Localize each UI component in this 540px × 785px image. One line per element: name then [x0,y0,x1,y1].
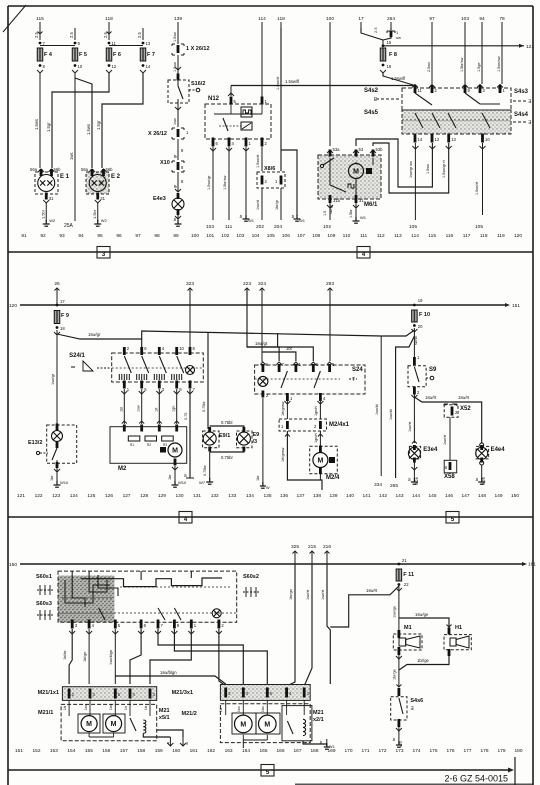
wire K67 branch to ground W1 [281,150,306,223]
svg-text:M2/4: M2/4 [326,475,340,481]
top feed tick 115 [36,16,44,28]
svg-text:M6/1: M6/1 [364,202,378,208]
relay M21 x2/1 [282,700,324,741]
svg-text:0.75bl: 0.75bl [221,420,232,425]
svg-text:1sw/gr: 1sw/gr [88,332,101,337]
svg-text:2.5ws: 2.5ws [427,62,431,72]
svg-text:1sw/rt: 1sw/rt [366,588,378,593]
svg-text:176: 176 [446,748,454,754]
svg-text:102: 102 [323,224,331,230]
svg-text:140: 140 [346,493,354,499]
ref label 223 below separator 1 [243,281,251,305]
svg-text:X58: X58 [444,474,455,480]
wire tbr branch to S24 pin1 [262,346,296,361]
svg-text:116: 116 [446,233,454,239]
wire F11 to horns 1sw/ge [393,586,399,630]
connector X52 [444,404,471,417]
wire F8 to S4 pin11 bus 1.5sw/fl [231,73,415,88]
svg-text:1sw/gr: 1sw/gr [51,373,55,385]
svg-text:31b: 31b [333,198,341,203]
svg-text:F 7: F 7 [147,52,155,58]
svg-text:105: 105 [409,224,417,230]
svg-text:149: 149 [494,493,502,499]
svg-text:a: a [167,741,169,745]
svg-text:135: 135 [263,493,271,499]
svg-text:H1: H1 [455,625,462,631]
svg-text:W: W [266,486,270,490]
svg-text:1.5gr: 1.5gr [46,122,51,132]
svg-text:53: 53 [359,147,364,152]
svg-text:19: 19 [418,298,423,303]
section key box 5 [446,512,459,524]
svg-text:162: 162 [207,748,215,754]
svg-text:131: 131 [193,493,201,499]
svg-text:265: 265 [390,483,398,489]
svg-text:F 4: F 4 [44,52,53,58]
svg-text:178: 178 [480,748,488,754]
svg-text:1bw: 1bw [261,705,265,712]
svg-text:M21: M21 [313,710,324,716]
wire M21x2/1 to ground [303,739,335,749]
svg-text:M21/3x1: M21/3x1 [172,690,193,696]
svg-text:M: M [111,721,117,728]
svg-text:110: 110 [343,233,351,239]
svg-text:E 1: E 1 [60,174,70,180]
connector M2/4x1 [279,419,350,431]
wire S60 pin3 to M21/1x1 pin2 [63,629,75,684]
svg-text:M21/1x1: M21/1x1 [38,690,59,696]
svg-text:F 9: F 9 [61,313,69,319]
svg-text:170: 170 [344,748,352,754]
svg-text:1.5br: 1.5br [92,209,97,219]
svg-text:W10: W10 [60,480,69,485]
svg-text:118: 118 [480,233,488,239]
switch S9 [408,355,437,398]
svg-text:134: 134 [246,493,254,499]
top feed tick 114 [258,16,266,28]
svg-text:0.75br: 0.75br [203,464,207,476]
svg-text:143: 143 [395,493,403,499]
fuse F8 [380,48,397,73]
section separator line 3 [8,757,515,785]
ref label 324 below separator 1 [258,281,266,305]
switch icon S60s1 [36,574,53,595]
section key box 4 [357,247,370,259]
svg-text:31: 31 [100,196,105,201]
fuse F6 [103,28,121,73]
svg-text:150: 150 [511,493,519,499]
svg-text:S60s2: S60s2 [243,574,259,580]
lamp E9/3 [237,427,260,452]
svg-text:1gn/rt: 1gn/rt [314,405,318,416]
svg-text:125: 125 [87,493,95,499]
svg-text:99: 99 [173,233,179,239]
svg-text:T: T [352,377,355,383]
wire branch to S24 pin6 [247,347,313,361]
svg-text:157: 157 [120,748,128,754]
svg-text:202: 202 [256,224,264,230]
wire N12 pin6 down to 103 [206,147,216,230]
svg-text:93: 93 [59,233,65,239]
svg-text:R3: R3 [163,443,167,447]
top feed tick 118 [105,16,113,28]
svg-text:1br: 1br [168,474,172,480]
svg-text:M21: M21 [159,708,170,714]
ref label 215 below separator 2 [308,544,316,565]
ref label 293 below separator 1 [326,281,334,305]
svg-text:94: 94 [479,16,485,22]
svg-text:173: 173 [395,748,403,754]
svg-text:x5/1: x5/1 [159,715,170,721]
svg-text:26: 26 [54,281,60,287]
lamp E4e3 [153,193,184,215]
wire E9/1-E9/3 link top 0.75bl [210,420,244,429]
svg-text:136: 136 [280,493,288,499]
wire F9 branch 1sw/gr to S24/1 pin6 [57,332,142,347]
wire S4 pin12 to M6/1 53 [356,139,435,187]
wire S4 pin10 to 105 right [475,143,486,230]
horn M1 [393,625,422,655]
svg-text:14: 14 [146,64,151,69]
svg-text:111: 111 [225,224,233,230]
svg-text:X8/6: X8/6 [264,166,275,172]
wire F5 branch down (1ws to 25A) [64,73,75,229]
wire E13/2 to ground W10 [50,468,69,487]
wire F10 branch to 265 [389,336,414,489]
svg-text:1.5br/sw: 1.5br/sw [223,175,227,190]
connector X8/6 [257,166,285,188]
wire 293 to S24 pin5 [329,288,331,361]
wire ref 215 to M21/3x1 pin1 [304,565,312,686]
svg-text:120: 120 [9,303,17,309]
wire 2.5ws to S4 block [427,28,432,84]
wire M6/1 31b to 102 [323,203,333,230]
svg-text:113: 113 [394,233,402,239]
wire S60 pin5 to M21/1x1 pin5 [109,629,118,684]
svg-text:1sw/rt: 1sw/rt [321,589,325,600]
svg-text:78: 78 [499,16,505,22]
svg-text:1br: 1br [256,475,260,481]
drawing number 2-6 GZ 54-0015 [295,774,533,785]
svg-text:98: 98 [154,233,160,239]
wire S9 to E3e4 [408,394,417,444]
svg-text:126: 126 [105,493,113,499]
wire F6 to E1 56b [46,73,109,168]
svg-text:2.5: 2.5 [373,27,378,33]
svg-text:∃: ∃ [410,706,413,712]
svg-text:1sw/rt: 1sw/rt [458,395,470,400]
wire 139 to X26/12 [173,28,178,44]
svg-text:1sw/rt: 1sw/rt [425,395,437,400]
relay label M21 x5/1 [159,708,170,721]
wire S60 pin1 jog left [150,629,194,684]
svg-text:1.5: 1.5 [323,211,327,216]
svg-text:1br/ge: 1br/ge [417,658,430,663]
svg-text:1.5sw: 1.5sw [426,164,430,174]
svg-text:sw/bl: sw/bl [414,336,418,345]
svg-text:1gn: 1gn [172,406,176,412]
wire S16/2 to X26/12 lower [173,103,181,127]
wire S4 pin14 to 105 [409,143,418,230]
top feed tick 78 [499,16,505,28]
svg-text:S4s3: S4s3 [514,89,529,95]
wires below M21/1 [143,730,188,746]
svg-text:S4s5: S4s5 [364,110,379,116]
svg-text:103: 103 [236,233,244,239]
wire S60 pin2 to M21/3x1 pin2 [216,629,226,686]
wire S24/1 to M2 1sw [137,389,145,424]
wire F11 1sw/rt route to wiper [330,586,399,627]
svg-text:W7: W7 [199,480,206,485]
svg-text:1.5ws/rt: 1.5ws/rt [475,181,479,195]
svg-text:S4s4: S4s4 [514,112,529,118]
wire X52 to E4e4 1sw/rt [450,395,484,447]
svg-text:172: 172 [378,748,386,754]
svg-text:117: 117 [463,233,471,239]
wire M2 to ground W10 [168,466,187,487]
wire 114 to N12 pin 1 [261,28,263,97]
top feed tick 103 [461,16,469,28]
connector X26/12 pin 1 [172,44,210,55]
svg-text:1.5sw/rt: 1.5sw/rt [256,154,260,168]
svg-text:1 X 26/12: 1 X 26/12 [186,46,210,52]
svg-text:53b: 53b [376,147,384,152]
wire X26/12 to S16/2 [173,55,181,81]
svg-text:166: 166 [276,748,284,754]
svg-text:142: 142 [379,493,387,499]
svg-text:25A: 25A [64,223,74,229]
ref label 26 below separator 1 [54,281,60,305]
svg-text:264: 264 [387,16,395,22]
svg-text:144: 144 [412,493,420,499]
svg-text:13: 13 [451,137,456,142]
svg-text:W3: W3 [399,741,403,747]
svg-text:M2/4x1: M2/4x1 [329,422,350,428]
svg-text:138: 138 [313,493,321,499]
svg-text:127: 127 [123,493,131,499]
wire X8/6 pin2 to 202 [256,188,264,230]
svg-text:1sw: 1sw [137,405,141,412]
svg-text:1.5ws: 1.5ws [34,119,39,130]
section key box 4b [179,512,192,524]
wire 1sw/blgn horizontal [115,670,225,684]
switch icon S60s2 [243,574,259,597]
svg-text:1.5br: 1.5br [40,209,45,219]
svg-text:165: 165 [259,748,267,754]
wire 100 to M6/1 53a [329,28,331,146]
relay N12 [205,96,271,147]
svg-text:13: 13 [146,41,151,46]
svg-text:161: 161 [190,748,198,754]
svg-text:22: 22 [404,582,409,587]
wire S24/1 to M2 1gn [172,389,180,424]
wire to X10 [173,139,184,160]
svg-text:139: 139 [329,493,337,499]
wiper switch S60 block [58,571,237,629]
fuse F5 [69,28,87,73]
svg-text:W26: W26 [415,477,419,485]
svg-text:1.5br/sw: 1.5br/sw [460,57,464,72]
svg-text:0.75: 0.75 [184,413,188,420]
svg-text:115: 115 [36,16,44,22]
headlamp E1 [30,167,70,201]
pump motor M2/4 [310,431,340,481]
svg-text:1sw/ge: 1sw/ge [415,612,429,617]
wire S60 pin6 to M21/1x1 pin4 [130,629,144,684]
wire F5 to E2 56a [75,78,92,168]
wire S4s6 to ground W3 [392,727,403,747]
main bus 150-181 [9,562,536,569]
svg-text:168: 168 [310,748,318,754]
lamp E3e4 [408,445,438,485]
svg-text:S60s3: S60s3 [36,601,52,607]
switch unit S24 [255,362,365,401]
svg-text:E9/1: E9/1 [219,433,230,439]
svg-text:122: 122 [35,493,43,499]
coordinate scale 121-150 [17,493,519,499]
top feed tick 97 [429,16,435,28]
wire N12 pin4 down to 111 [223,147,233,230]
svg-text:103: 103 [461,16,469,22]
wire N12 pin2 to X8/6 [256,147,262,171]
svg-text:W25: W25 [482,477,486,485]
svg-text:21: 21 [402,558,407,563]
wire F7 to E2 56b [96,73,143,168]
svg-text:103: 103 [206,224,214,230]
svg-text:153: 153 [50,748,58,754]
blower resistor unit M2 [110,425,187,473]
wire 118 to X8/6 pin 1 [276,28,281,171]
coordinate scale 151-180 [15,748,523,754]
svg-text:20: 20 [418,324,423,329]
wire M2/4x1 pin1 down around [281,431,322,490]
svg-text:M: M [240,721,246,728]
svg-text:M21/1: M21/1 [38,710,53,716]
svg-text:56b: 56b [106,167,114,172]
svg-text:1.5sw: 1.5sw [173,32,177,42]
wire S9 branch 1sw/rt to X52 [414,395,449,402]
svg-text:X52: X52 [460,406,471,412]
svg-text:293: 293 [326,281,334,287]
top feed tick 17 [358,16,364,28]
svg-text:111: 111 [360,233,368,239]
svg-text:10: 10 [179,346,184,351]
connector X26/12 lower [148,128,189,139]
wire M6/1 31 to ground W1 [349,203,367,223]
wire branch to E9 lamps 0.75bl [142,331,382,429]
svg-text:223: 223 [243,281,251,287]
svg-text:E13/2: E13/2 [28,440,42,446]
svg-text:1sw/ge: 1sw/ge [393,606,397,618]
switch unit S24/1 [69,346,203,392]
svg-text:∃: ∃ [528,99,531,105]
svg-text:215: 215 [308,544,316,550]
svg-text:100: 100 [191,233,199,239]
svg-text:180: 180 [514,748,522,754]
fuse F7 [137,28,155,73]
svg-text:1sw/blgn: 1sw/blgn [109,650,113,665]
svg-text:53a: 53a [333,147,341,152]
top feed tick 94 [479,16,485,28]
ground below E4e3 [173,215,182,226]
fuse F10 [411,298,430,332]
top feed tick 118 [277,16,285,28]
svg-text:E 2: E 2 [111,174,121,180]
svg-text:1sw: 1sw [173,118,177,125]
ref label 323 below separator 1 [186,281,194,305]
svg-text:X 26/12: X 26/12 [148,131,167,137]
switch S16/2 [168,80,205,103]
svg-text:95: 95 [97,233,103,239]
svg-text:1bw: 1bw [109,703,113,710]
wire F9 to E13/2 [51,330,57,424]
ground below E2 [92,200,108,226]
svg-text:147: 147 [461,493,469,499]
wire ref 325 to M21/3x1 pin4 [287,565,295,686]
svg-text:105: 105 [267,233,275,239]
svg-text:W2: W2 [49,218,56,223]
svg-text:M: M [264,721,270,728]
svg-text:132: 132 [211,493,219,499]
svg-text:97: 97 [429,16,435,22]
top feed tick 100 [326,16,334,28]
svg-text:F 5: F 5 [79,52,87,58]
svg-text:10: 10 [485,137,490,142]
svg-text:114: 114 [411,233,419,239]
svg-text:139: 139 [174,16,182,22]
wire F10 branch left 1sw/gr [381,330,414,336]
svg-text:124: 124 [70,493,78,499]
connector X58 [444,460,457,480]
svg-text:F 10: F 10 [419,312,430,318]
wire branch to H1 right 1sw/ge [399,612,452,628]
svg-text:F 8: F 8 [389,52,397,58]
svg-text:2-6 GZ 54-0015: 2-6 GZ 54-0015 [444,774,508,784]
svg-text:g: g [186,741,188,745]
svg-text:146: 146 [445,493,453,499]
svg-text:1bl: 1bl [219,707,223,712]
wire E9/1-E9/3 link bottom 0.75br [210,450,244,460]
svg-text:92: 92 [40,233,46,239]
svg-text:12: 12 [435,137,440,142]
connector 264 sw [383,28,401,40]
svg-text:155: 155 [85,748,93,754]
wire S24 lamp pin2 down to ground [256,398,270,490]
svg-text:M21/2: M21/2 [182,711,197,717]
svg-text:1rt/gnsw: 1rt/gnsw [281,447,285,462]
svg-text:1sw: 1sw [84,704,88,710]
svg-text:154: 154 [67,748,75,754]
wire N12 pin1 down to ground [239,147,255,223]
svg-text:S24: S24 [352,367,363,373]
wire X52 to X58 [443,417,450,460]
svg-text:107: 107 [297,233,305,239]
svg-text:10: 10 [78,64,83,69]
svg-text:1sw/gr ws: 1sw/gr ws [409,161,413,178]
svg-text:1.5sw/rt: 1.5sw/rt [276,76,280,90]
wire S24/1 pin7 down [184,389,195,478]
wire 1.5ws/sw to S4 block [497,28,502,84]
svg-text:W1: W1 [248,218,255,223]
svg-text:R1: R1 [130,443,134,447]
svg-text:1.5sw/gr rt: 1.5sw/gr rt [442,159,446,178]
svg-text:0.75br: 0.75br [221,455,233,460]
svg-text:0.75bl: 0.75bl [202,401,206,412]
svg-text:216: 216 [323,544,331,550]
wiper motor unit M21/1 [38,700,157,741]
section key box 3 [97,247,110,259]
headlamp E2 [81,167,121,201]
